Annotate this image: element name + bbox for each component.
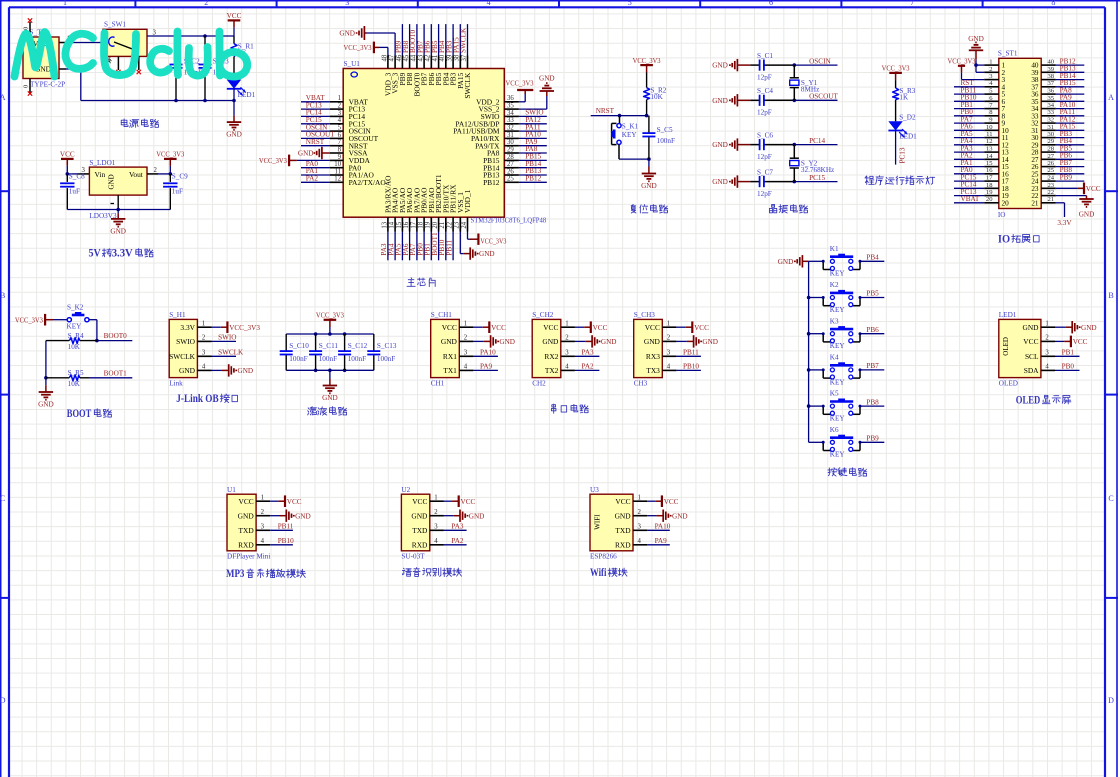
U1 pin 32 (PA11/USB/DM) (504, 130, 519, 132)
left rail wire (BOOT circuit) (45, 341, 47, 386)
svg-text:RXD: RXD (412, 540, 428, 549)
svg-text:U1: U1 (227, 486, 236, 494)
junction at capacitor S_C3 top (203, 34, 207, 38)
svg-text:VCC_3V3: VCC_3V3 (316, 312, 344, 320)
S_ST1 pin 30 (1041, 137, 1056, 139)
svg-text:36: 36 (1048, 88, 1055, 95)
svg-text:VCC: VCC (442, 323, 457, 332)
svg-text:KEY: KEY (622, 131, 638, 139)
svg-text:3: 3 (637, 523, 641, 530)
svg-text:K6: K6 (830, 426, 839, 434)
U1 pin 15 (PA5/AO) (401, 217, 403, 231)
svg-text:RX2: RX2 (544, 352, 558, 361)
svg-text:CH3: CH3 (634, 379, 648, 387)
svg-text:32: 32 (1048, 117, 1055, 124)
U1 pin 13 (PA3/RX/AO) (387, 217, 389, 231)
GND power port (reset circuit) (648, 167, 650, 174)
svg-text:VCC_3V3: VCC_3V3 (156, 151, 184, 159)
U1 pin 7 (NRST) (330, 145, 343, 147)
U1 pin 45 (PB8) (409, 56, 411, 69)
svg-text:GND: GND (298, 150, 314, 158)
svg-text:PA2: PA2 (582, 363, 595, 371)
VCC power port (LDO input) (66, 166, 68, 174)
svg-text:8: 8 (338, 146, 342, 153)
net label PA4 wire (U1 bottom) (394, 232, 396, 261)
svg-text:10K: 10K (68, 380, 81, 388)
GND power port at U1 pin23 VSS_1 (459, 232, 461, 254)
GND power port (power circuit) (233, 116, 235, 123)
S_CH2 pin 4 (TX2) (561, 369, 575, 371)
svg-text:PC13: PC13 (898, 147, 906, 163)
net label PB9 wire (key K6) (860, 441, 884, 443)
connector S_CH1 (serial) (431, 319, 460, 377)
title: serial port circuit (552, 405, 556, 407)
sheet border frame (9, 6, 1105, 8)
svg-text:SWCLK: SWCLK (460, 27, 468, 53)
U1 pin 2 (GND) (256, 515, 270, 517)
svg-text:PB1: PB1 (1062, 349, 1075, 357)
svg-text:25: 25 (1048, 167, 1055, 174)
U1 pin 43 (PB7) (423, 56, 425, 69)
S_ST1 pin 9 (984, 122, 999, 124)
svg-text:PA2: PA2 (451, 537, 464, 545)
U1 pin 21 (PB10/TX) (445, 217, 447, 231)
svg-text:IO: IO (998, 233, 1010, 245)
S_CH1 pin 2 (GND) (459, 340, 473, 342)
net label PA7 wire (U1 bottom) (416, 232, 418, 261)
svg-text:SCL: SCL (1025, 352, 1039, 361)
resistor S_R1 1K (233, 36, 235, 44)
connector S_CH2 (serial) (532, 319, 561, 377)
U1 pin 38 (PA15) (459, 56, 461, 69)
svg-text:LED1: LED1 (899, 133, 917, 141)
LED1 pin 2 (VCC) (1041, 340, 1055, 342)
GND power port at S_ST1 pin22 (1056, 195, 1087, 197)
svg-text:3: 3 (565, 349, 569, 356)
svg-text:PB11: PB11 (683, 349, 699, 357)
GND power port (filter circuit) (329, 370, 331, 379)
svg-text:4: 4 (261, 538, 265, 545)
net label PA0 wire (S_ST1 left) (954, 173, 984, 175)
U1 pin 30 (PA9/TX) (504, 145, 519, 147)
net label PB3 wire (S_ST1 right) (1056, 137, 1085, 139)
junction key rail row 2 (807, 296, 811, 300)
U3 pin 2 (GND) (633, 515, 647, 517)
GND power port at U1 pin8 VSSA (322, 152, 330, 154)
U2 pin 3 (TXD) (430, 529, 444, 531)
resistor S_R2 10K (644, 88, 650, 100)
net label PB7 wire (key K4) (860, 369, 884, 371)
svg-text:3: 3 (345, 0, 349, 7)
svg-text:BOOT0: BOOT0 (104, 332, 128, 340)
U1 pin 18 (PB0/AO) (423, 217, 425, 231)
svg-text:GND: GND (712, 141, 728, 149)
U1 pin 16 (PA6/AO) (409, 217, 411, 231)
svg-text:K3: K3 (830, 317, 839, 325)
S_ST1 pin 40 (1041, 64, 1056, 66)
svg-text:GND: GND (712, 62, 728, 70)
svg-text:K5: K5 (830, 390, 839, 398)
S_ST1 pin 4 (984, 86, 999, 88)
net label OSCOUT wire (U1 left) (301, 137, 330, 139)
net label BOOT0 wire (U1 top) (416, 24, 418, 55)
U1 pin 4 (PC15) (330, 123, 343, 125)
resistor S_R3 1K (893, 88, 899, 100)
S_CH1 pin 3 (RX1) (459, 355, 473, 357)
net label PB9 wire (U1 top) (401, 24, 403, 55)
capacitor S_C10 100nF (filter) (285, 334, 287, 351)
U1 pin 11 (PA1/AO) (330, 174, 343, 176)
net label PA3 wire at U2 pin3 (444, 529, 467, 531)
net label PA12 wire (U1 right) (519, 123, 547, 125)
S_ST1 pin 14 (984, 158, 999, 160)
GND power port (BOOT circuit) (45, 385, 47, 392)
U1 pin 17 (PA7/AO) (416, 217, 418, 231)
U1 pin 3 (PC14) (330, 115, 343, 117)
VCC power port at LED1 pin2 (1055, 340, 1064, 342)
svg-text:GND: GND (641, 182, 657, 190)
S_ST1 pin 21 (1041, 202, 1056, 204)
svg-text:39: 39 (1048, 66, 1055, 73)
svg-text:S_CH1: S_CH1 (431, 311, 453, 319)
net label PA9 wire (U1 right) (519, 145, 547, 147)
svg-text:VCC_3V3: VCC_3V3 (506, 80, 534, 88)
S_ST1 pin 15 (984, 166, 999, 168)
svg-text:15: 15 (986, 160, 993, 167)
net label PC14 wire (U1 left) (301, 115, 330, 117)
switch S_SW1 (103, 29, 147, 56)
GND power port (crystal row PC15) (737, 181, 750, 183)
push button K2 KEY (809, 297, 824, 299)
svg-text:38: 38 (1048, 73, 1055, 80)
capacitor S_C6 12pF (750, 144, 759, 146)
net label PA12 wire (S_ST1 right) (1056, 122, 1085, 124)
svg-text:PA9: PA9 (480, 363, 493, 371)
wire VCC to LDO Vin pin3 (67, 173, 77, 175)
svg-text:26: 26 (507, 168, 514, 175)
svg-text:19: 19 (986, 189, 993, 196)
svg-text:5: 5 (338, 125, 342, 132)
S_ST1 pin 28 (1041, 151, 1056, 153)
title: main chip (410, 278, 413, 279)
svg-text:24: 24 (1048, 175, 1055, 182)
connector S_ST1 IO header body (999, 58, 1041, 208)
svg-text:U2: U2 (401, 486, 410, 494)
svg-text:35: 35 (1048, 95, 1055, 102)
wire to net OSCIN (794, 64, 837, 66)
svg-text:2: 2 (637, 509, 641, 516)
svg-text:S_ST1: S_ST1 (998, 50, 1018, 58)
net label PA9 wire (S_ST1 right) (1056, 100, 1085, 102)
capacitor S_C7 12pF (750, 181, 759, 183)
net label PA10 wire (S_ST1 right) (1056, 108, 1085, 110)
net label PA2 wire (U1 left) (301, 181, 330, 183)
S_H1 pin 3 (SWCLK) (197, 355, 211, 357)
svg-text:33: 33 (1048, 109, 1055, 116)
svg-text:3: 3 (1045, 349, 1049, 356)
wire down to GND (reset) (648, 159, 650, 166)
S_H1 pin 1 (3.3V) (197, 326, 211, 328)
wire to net PC14 (794, 144, 837, 146)
svg-text:B: B (1108, 291, 1113, 300)
svg-text:1K: 1K (899, 94, 909, 102)
svg-text:3.3V: 3.3V (180, 323, 195, 332)
ground rail of LDO circuit (67, 209, 170, 211)
svg-text:VCC: VCC (1023, 337, 1038, 346)
svg-text:VCC: VCC (645, 323, 660, 332)
svg-text:22: 22 (447, 221, 454, 228)
svg-text:20: 20 (432, 221, 439, 228)
svg-text:OLED: OLED (1016, 394, 1041, 406)
svg-text:2: 2 (989, 66, 992, 73)
title: filter circuit (308, 408, 309, 409)
capacitor S_C2 100nF (175, 36, 177, 65)
VCC_3V3 power port at U1 pin36 VDD_2 (519, 101, 525, 103)
svg-text:37: 37 (1048, 80, 1055, 87)
svg-text:33: 33 (507, 117, 514, 124)
push button S_K2 KEY (53, 319, 67, 321)
net label PA8 wire (U1 right) (519, 152, 547, 154)
svg-text:S_D2: S_D2 (899, 114, 916, 122)
svg-text:MP3: MP3 (226, 568, 245, 580)
NRST net wire (591, 115, 647, 117)
net label PB15 wire (S_ST1 right) (1056, 86, 1085, 88)
svg-text:41: 41 (432, 55, 439, 62)
U1 pin 34 (SWIO) (504, 115, 519, 117)
title: power circuit (123, 119, 125, 120)
net label PA2 wire at U2 pin4 (444, 544, 467, 546)
U1 pin 14 (PA4/AO) (394, 217, 396, 231)
svg-text:S_U1: S_U1 (344, 60, 361, 68)
VCC_3V3 power port (BOOT circuit) (45, 319, 53, 321)
svg-text:30: 30 (1048, 131, 1055, 138)
svg-text:GND: GND (411, 511, 428, 520)
wire to resistor S_R3 (895, 80, 897, 88)
svg-text:RXD: RXD (238, 540, 254, 549)
svg-text:OLED: OLED (999, 379, 1018, 387)
module U3 ESP8266 WiFi (590, 494, 633, 551)
crystal S_Y2 32.768KHz (793, 143, 797, 147)
net label SWCLK wire (U1 top) (467, 24, 469, 55)
svg-text:4: 4 (667, 364, 671, 371)
push button K6 KEY (809, 441, 824, 443)
U1 pin 36 (VDD_2) (504, 101, 519, 103)
svg-text:PB9: PB9 (866, 435, 879, 443)
svg-text:KEY: KEY (67, 323, 83, 331)
S_ST1 pin 7 (984, 108, 999, 110)
svg-text:14: 14 (389, 221, 396, 228)
svg-text:100nF: 100nF (348, 355, 366, 363)
U1 pin 23 (VSS_1) (459, 217, 461, 231)
svg-text:4: 4 (565, 364, 569, 371)
LED1 pin 3 (SCL) (1041, 355, 1055, 357)
U1 pin 10 (PA0) (330, 167, 343, 169)
svg-text:VCC_3V3: VCC_3V3 (480, 237, 506, 245)
svg-text:KEY: KEY (830, 451, 846, 459)
svg-text:BOOT1: BOOT1 (104, 369, 128, 377)
svg-text:KEY: KEY (830, 270, 846, 278)
resistor S_R4 10K (46, 340, 69, 342)
svg-text:K1: K1 (830, 245, 839, 253)
net label PA6 wire (U1 bottom) (409, 232, 411, 261)
svg-text:VDD_1: VDD_1 (463, 189, 472, 213)
svg-text:CH2: CH2 (532, 379, 546, 387)
svg-text:VCC: VCC (593, 324, 608, 332)
svg-text:VCC: VCC (615, 497, 630, 506)
net label PB8 wire (S_ST1 right) (1056, 173, 1085, 175)
svg-text:34: 34 (1048, 102, 1055, 109)
push button S_K1 KEY (reset) (619, 116, 621, 124)
VCC_3V3 power port at S_H1 pin1 (212, 326, 221, 328)
svg-text:VCC: VCC (227, 12, 242, 20)
U1 pin 33 (PA12/USB/DP) (504, 123, 519, 125)
svg-text:35: 35 (507, 103, 514, 110)
wire from S_T1 pin1 to switch S_SW1 (66, 42, 103, 44)
U1 pin 3 (TXD) (256, 529, 270, 531)
U2 pin 2 (GND) (430, 515, 444, 517)
svg-text:GND: GND (226, 131, 242, 139)
junction at C8 top (66, 172, 70, 176)
junction at capacitor S_C2 top (174, 34, 178, 38)
net label PA15 wire (U1 top) (459, 24, 461, 55)
svg-text:100nF: 100nF (657, 137, 675, 145)
S_ST1 pin 19 (984, 195, 999, 197)
S_ST1 pin 36 (1041, 93, 1056, 95)
net label PB13 wire (U1 right) (519, 174, 547, 176)
svg-text:Wifi: Wifi (590, 567, 606, 579)
svg-text:TXD: TXD (238, 526, 254, 535)
svg-text:VCC_3V3: VCC_3V3 (633, 57, 661, 65)
svg-text:S_C9: S_C9 (172, 173, 188, 181)
U1 pin 26 (PB13) (504, 174, 519, 176)
GND power port (crystal row OSCIN) (737, 64, 750, 66)
net label PA15 wire (S_ST1 right) (1056, 129, 1085, 131)
VCC power port (power circuit) (233, 27, 235, 36)
svg-text:2: 2 (1045, 335, 1049, 342)
net label PA11 wire (U1 right) (519, 130, 547, 132)
wire from S_K2 down to BOOT0 (89, 319, 97, 321)
svg-text:GND: GND (1022, 323, 1039, 332)
net label PA6 wire (S_ST1 left) (954, 129, 984, 131)
svg-text:22: 22 (1048, 189, 1055, 196)
capacitor S_C13 100nF (filter) (373, 334, 375, 351)
svg-text:S_CH2: S_CH2 (532, 311, 554, 319)
LED1 pin 4 (SDA) (1041, 369, 1055, 371)
svg-text:31: 31 (1048, 124, 1055, 131)
svg-text:PA3: PA3 (451, 523, 464, 531)
net label PB0 wire (U1 bottom) (423, 232, 425, 261)
svg-text:12pF: 12pF (757, 109, 772, 117)
svg-text:28: 28 (507, 154, 514, 161)
svg-text:1: 1 (565, 320, 568, 327)
svg-text:4: 4 (637, 538, 641, 545)
S_ST1 pin 27 (1041, 158, 1056, 160)
connector LED1 OLED display (999, 319, 1041, 377)
unconnected bottom pin of S_T1 (29, 79, 31, 94)
net label PB1 wire at LED1 pin3 (1055, 355, 1080, 357)
push button K4 KEY (809, 369, 824, 371)
U1 pin 5 (OSCIN) (330, 130, 343, 132)
S_ST1 pin 34 (1041, 108, 1056, 110)
svg-text:U3: U3 (590, 486, 599, 494)
pin 2 of S_T1 (59, 68, 66, 70)
LED S_D2 (888, 121, 902, 130)
net label PB7 wire (U1 top) (423, 24, 425, 55)
net label PA10 wire at U3 pin3 (647, 529, 670, 531)
svg-text:32.768KHz: 32.768KHz (801, 166, 834, 174)
S_ST1 pin 22 (1041, 195, 1056, 197)
svg-text:RX1: RX1 (443, 352, 457, 361)
VCC_3V3 power port at U1 pin48 VDD_3 (387, 47, 389, 55)
svg-text:19: 19 (425, 221, 432, 228)
GND power port at S_CH2 pin2 (575, 340, 585, 342)
svg-text:2: 2 (565, 335, 569, 342)
U1 pin 1 (VBAT) (330, 101, 343, 103)
svg-text:Vin: Vin (95, 170, 106, 179)
S_ST1 pin 29 (1041, 144, 1056, 146)
svg-text:ESP8266: ESP8266 (590, 552, 617, 560)
svg-text:5V: 5V (89, 248, 102, 260)
S_ST1 pin 17 (984, 180, 999, 182)
svg-text:20: 20 (986, 196, 993, 203)
svg-text:PB5: PB5 (866, 290, 879, 298)
svg-text:VCC: VCC (694, 324, 709, 332)
svg-text:29: 29 (1048, 138, 1055, 145)
net label PA1 wire (S_ST1 left) (954, 166, 984, 168)
S_ST1 pin 33 (1041, 115, 1056, 117)
svg-text:GND: GND (601, 338, 617, 346)
svg-text:PB10: PB10 (278, 537, 294, 545)
svg-text:27: 27 (1048, 153, 1055, 160)
net label PA3 wire (U1 bottom) (387, 232, 389, 261)
S_H1 pin 4 (GND) (197, 369, 211, 371)
svg-text:PB11: PB11 (445, 239, 453, 255)
GND power port at U1 pin47 VSS_3 (394, 33, 396, 56)
svg-text:5: 5 (628, 0, 632, 7)
svg-text:GND: GND (179, 366, 196, 375)
net label PA5 wire (S_ST1 left) (954, 137, 984, 139)
svg-text:GND: GND (479, 250, 495, 258)
wire to net PC15 (794, 181, 837, 183)
svg-text:OSCIN: OSCIN (809, 57, 831, 65)
U1 pin 39 (PB3) (452, 56, 454, 69)
svg-text:RXD: RXD (615, 540, 631, 549)
svg-text:TXD: TXD (615, 526, 631, 535)
svg-text:CH1: CH1 (431, 379, 445, 387)
svg-text:GND: GND (295, 512, 311, 520)
svg-text:PB12: PB12 (525, 175, 541, 183)
svg-text:17: 17 (986, 175, 993, 182)
net label PB4 wire (U1 top) (445, 24, 447, 55)
svg-text:1: 1 (1045, 320, 1048, 327)
wire from S_T1 pin2 down to ground rail (66, 68, 81, 70)
S_ST1 pin 20 (984, 202, 999, 204)
svg-text:10K: 10K (650, 93, 663, 101)
title: crystal circuit (772, 204, 775, 207)
title: voice recognition module (402, 567, 405, 570)
svg-text:7: 7 (910, 0, 914, 7)
S_ST1 pin 12 (984, 144, 999, 146)
svg-text:GND: GND (322, 394, 338, 402)
svg-text:PB10: PB10 (683, 363, 699, 371)
net label VBAT wire (U1 left) (301, 101, 330, 103)
capacitor S_C8 1uF (66, 174, 68, 182)
svg-text:S_C10: S_C10 (289, 342, 309, 350)
svg-text:PB0: PB0 (1062, 363, 1075, 371)
svg-text:GND: GND (108, 174, 116, 189)
svg-text:23: 23 (1048, 182, 1055, 189)
wire S_R3 to LED S_D2 (895, 100, 897, 122)
